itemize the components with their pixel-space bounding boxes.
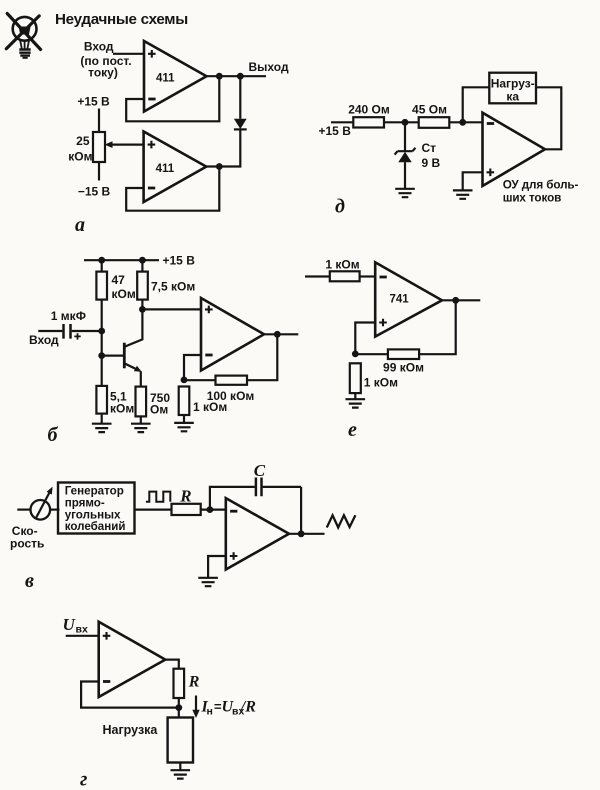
wire bbox=[140, 416, 142, 423]
wire base bbox=[102, 355, 124, 357]
junction bbox=[452, 297, 459, 304]
svg-text:R: R bbox=[188, 674, 200, 691]
resistor 100 kOhm bbox=[216, 376, 248, 385]
wire feedback bbox=[81, 682, 179, 708]
zener diode St 9V bbox=[395, 148, 416, 162]
junction bbox=[98, 328, 105, 335]
svg-text:н: н bbox=[207, 706, 213, 718]
op-amp U7 bbox=[99, 622, 166, 697]
wire feedback U2 bbox=[126, 167, 219, 211]
wire +15V to pot bbox=[98, 109, 100, 133]
wire load to ground bbox=[179, 763, 181, 771]
value St 9V bbox=[422, 141, 441, 170]
ground bbox=[346, 399, 366, 407]
svg-text:кОм: кОм bbox=[68, 150, 92, 164]
svg-text:C: C bbox=[254, 461, 266, 480]
svg-text:−15 В: −15 В bbox=[78, 185, 111, 199]
svg-text:д: д bbox=[335, 196, 345, 218]
op-amp U1 411 bbox=[144, 41, 207, 112]
junction bbox=[298, 530, 305, 537]
wire U5 + input bbox=[355, 323, 375, 354]
resistor 99 kOhm bbox=[388, 349, 419, 359]
junction bbox=[216, 73, 223, 80]
junction bbox=[175, 704, 182, 711]
wire feedback U1 bbox=[126, 76, 219, 121]
op-amp U2 411 bbox=[144, 132, 207, 203]
resistor 47 kOhm bbox=[96, 272, 107, 300]
wire cap to output bbox=[300, 487, 302, 534]
wire wiper to U2 + bbox=[105, 141, 144, 148]
label Скорость bbox=[10, 524, 44, 551]
junction bbox=[402, 119, 409, 126]
svg-text:240 Ом: 240 Ом bbox=[348, 103, 390, 117]
ground bbox=[198, 578, 218, 586]
svg-text:ка: ка bbox=[506, 90, 519, 104]
svg-text:9 В: 9 В bbox=[422, 156, 441, 170]
svg-text:ОУ для боль-: ОУ для боль- bbox=[503, 178, 579, 191]
wire bbox=[183, 415, 185, 423]
ground bbox=[174, 423, 194, 431]
wire output U1 bbox=[207, 75, 267, 77]
svg-text:1 мкФ: 1 мкФ bbox=[51, 309, 86, 323]
load box Нагрузка bbox=[489, 73, 536, 104]
wire bbox=[384, 121, 419, 123]
wire output bbox=[289, 533, 325, 535]
wire R to op-amp bbox=[201, 509, 226, 511]
resistor 240 Ohm bbox=[353, 117, 384, 127]
ground bbox=[131, 424, 151, 432]
wire feedback bbox=[247, 334, 277, 380]
junction bbox=[207, 506, 214, 513]
wire zener to ground bbox=[404, 162, 406, 188]
wire bbox=[360, 275, 376, 277]
svg-text:7,5 кОм: 7,5 кОм bbox=[151, 280, 195, 294]
ground bbox=[92, 424, 112, 432]
wire bbox=[449, 121, 482, 123]
wire U3 + to ground bbox=[463, 172, 483, 190]
wire knob to generator bbox=[50, 509, 59, 511]
value 5.1 kOhm bbox=[110, 389, 134, 415]
svg-text:45 Ом: 45 Ом bbox=[412, 103, 447, 117]
svg-text:U: U bbox=[63, 615, 76, 634]
wire input bbox=[66, 635, 99, 637]
generator box bbox=[58, 483, 135, 534]
svg-text:Нагрузка: Нагрузка bbox=[103, 723, 159, 737]
junction bbox=[98, 257, 105, 264]
wire output to R bbox=[165, 660, 179, 669]
resistor 7.5 kOhm bbox=[137, 272, 148, 300]
svg-text:1 кОм: 1 кОм bbox=[325, 257, 359, 271]
value 750 Ohm bbox=[150, 391, 170, 417]
junction bbox=[237, 73, 244, 80]
svg-text:кОм: кОм bbox=[110, 401, 134, 415]
junction bbox=[139, 306, 146, 313]
wire to op-amp bbox=[142, 308, 201, 310]
svg-text:ших токов: ших токов bbox=[503, 191, 562, 204]
op-amp U5 741 bbox=[375, 262, 442, 336]
svg-text:рость: рость bbox=[10, 537, 44, 551]
diode D1 bbox=[234, 119, 247, 130]
svg-text:Вход: Вход bbox=[84, 40, 114, 54]
resistor 45 Ohm bbox=[419, 117, 450, 128]
svg-text:току): току) bbox=[88, 65, 118, 79]
wire diode to U2 output bbox=[206, 129, 240, 166]
svg-text:741: 741 bbox=[390, 294, 410, 306]
square wave symbol bbox=[146, 492, 170, 502]
crossed-out lightbulb icon bbox=[6, 14, 40, 58]
ground bbox=[453, 190, 473, 198]
polarity plus bbox=[74, 333, 80, 339]
svg-text:Ом: Ом bbox=[150, 402, 168, 416]
resistor 5.1 kOhm bbox=[96, 386, 107, 414]
svg-text:/R: /R bbox=[240, 699, 256, 716]
ground bbox=[171, 770, 191, 778]
wire input stub bbox=[17, 509, 30, 511]
value 47 kOhm bbox=[112, 273, 136, 301]
wire load to output bbox=[536, 87, 561, 149]
ground bbox=[395, 189, 415, 197]
resistor R bbox=[174, 669, 185, 698]
wire U4 - input bbox=[184, 355, 201, 380]
wire bbox=[184, 379, 216, 381]
wire feedback bbox=[419, 300, 456, 354]
junction bbox=[139, 257, 146, 264]
junction bbox=[352, 351, 359, 358]
svg-text:е: е bbox=[348, 419, 357, 441]
junction bbox=[98, 352, 105, 359]
wire pot to -15V bbox=[98, 162, 100, 181]
junction bbox=[274, 331, 281, 338]
wire bbox=[101, 260, 103, 271]
wire input bbox=[38, 330, 62, 332]
junction bbox=[181, 377, 188, 384]
wire input bbox=[305, 275, 330, 277]
op-amp U3 bbox=[483, 113, 546, 186]
svg-text:колебаний: колебаний bbox=[65, 520, 126, 533]
wire U6 + to ground bbox=[208, 556, 226, 578]
wire left column bbox=[101, 300, 103, 386]
wire generator to R bbox=[135, 509, 172, 511]
potentiometer R1 25 kOhm bbox=[93, 132, 105, 162]
wire to diode bbox=[239, 76, 241, 119]
label OU for large currents bbox=[503, 178, 579, 204]
resistor 1 kOhm bbox=[179, 387, 190, 416]
wire +15V rail bbox=[84, 259, 159, 261]
svg-text:Вход: Вход bbox=[29, 333, 59, 347]
svg-text:а: а bbox=[75, 214, 85, 236]
svg-text:47: 47 bbox=[112, 273, 126, 287]
svg-text:кОм: кОм bbox=[112, 287, 136, 301]
transistor Q1 bbox=[124, 343, 141, 372]
resistor 750 Ohm bbox=[136, 387, 147, 417]
wire R to node bbox=[178, 698, 180, 718]
wire input U1 bbox=[113, 53, 144, 55]
resistor 1 kOhm bbox=[330, 271, 360, 281]
sawtooth symbol bbox=[327, 515, 356, 527]
svg-text:99 кОм: 99 кОм bbox=[383, 361, 424, 375]
value 25 kOhm bbox=[68, 134, 92, 164]
capacitor C1 1uF bbox=[64, 324, 102, 339]
svg-text:в: в bbox=[25, 570, 34, 592]
speed knob bbox=[31, 487, 53, 520]
load box bbox=[168, 718, 193, 763]
wire node to load bbox=[463, 87, 490, 122]
wire output bbox=[442, 299, 480, 301]
resistor R bbox=[172, 504, 201, 515]
op-amp U4 bbox=[201, 298, 264, 371]
wire bbox=[355, 353, 388, 355]
svg-text:411: 411 bbox=[156, 72, 175, 84]
wire bbox=[141, 260, 143, 271]
label In = Uvx/R bbox=[201, 699, 257, 718]
svg-text:1 кОм: 1 кОм bbox=[193, 400, 227, 414]
wire output U4 bbox=[264, 333, 298, 335]
wire bbox=[331, 121, 353, 123]
svg-text:Ст: Ст bbox=[422, 141, 437, 155]
wire emitter bbox=[140, 371, 142, 386]
op-amp U6 bbox=[226, 498, 289, 569]
resistor 1 kOhm bbox=[350, 363, 361, 393]
svg-text:+15 В: +15 В bbox=[319, 124, 352, 138]
svg-text:б: б bbox=[48, 424, 59, 446]
svg-text:Нагруз-: Нагруз- bbox=[491, 77, 535, 91]
wire bbox=[354, 393, 356, 399]
svg-text:25: 25 bbox=[76, 134, 90, 148]
svg-text:+15 В: +15 В bbox=[77, 95, 110, 109]
wire collector bbox=[125, 309, 142, 346]
capacitor C bbox=[256, 478, 301, 497]
svg-text:г: г bbox=[80, 769, 87, 790]
svg-text:+15 В: +15 В bbox=[163, 253, 196, 267]
svg-text:вх: вх bbox=[76, 624, 88, 636]
wire feedback top bbox=[210, 487, 255, 510]
svg-text:Выход: Выход bbox=[249, 60, 289, 74]
wire bbox=[101, 414, 103, 424]
svg-text:411: 411 bbox=[156, 163, 175, 175]
junction bbox=[216, 163, 223, 170]
wire collector node bbox=[141, 300, 143, 310]
node Uvx label bbox=[63, 615, 88, 635]
svg-text:1 кОм: 1 кОм bbox=[364, 375, 398, 389]
svg-text:Неудачные схемы: Неудачные схемы bbox=[55, 11, 188, 28]
current arrow bbox=[192, 696, 199, 719]
wire to zener bbox=[404, 122, 406, 151]
junction bbox=[459, 119, 466, 126]
node Вход label bbox=[80, 40, 131, 80]
